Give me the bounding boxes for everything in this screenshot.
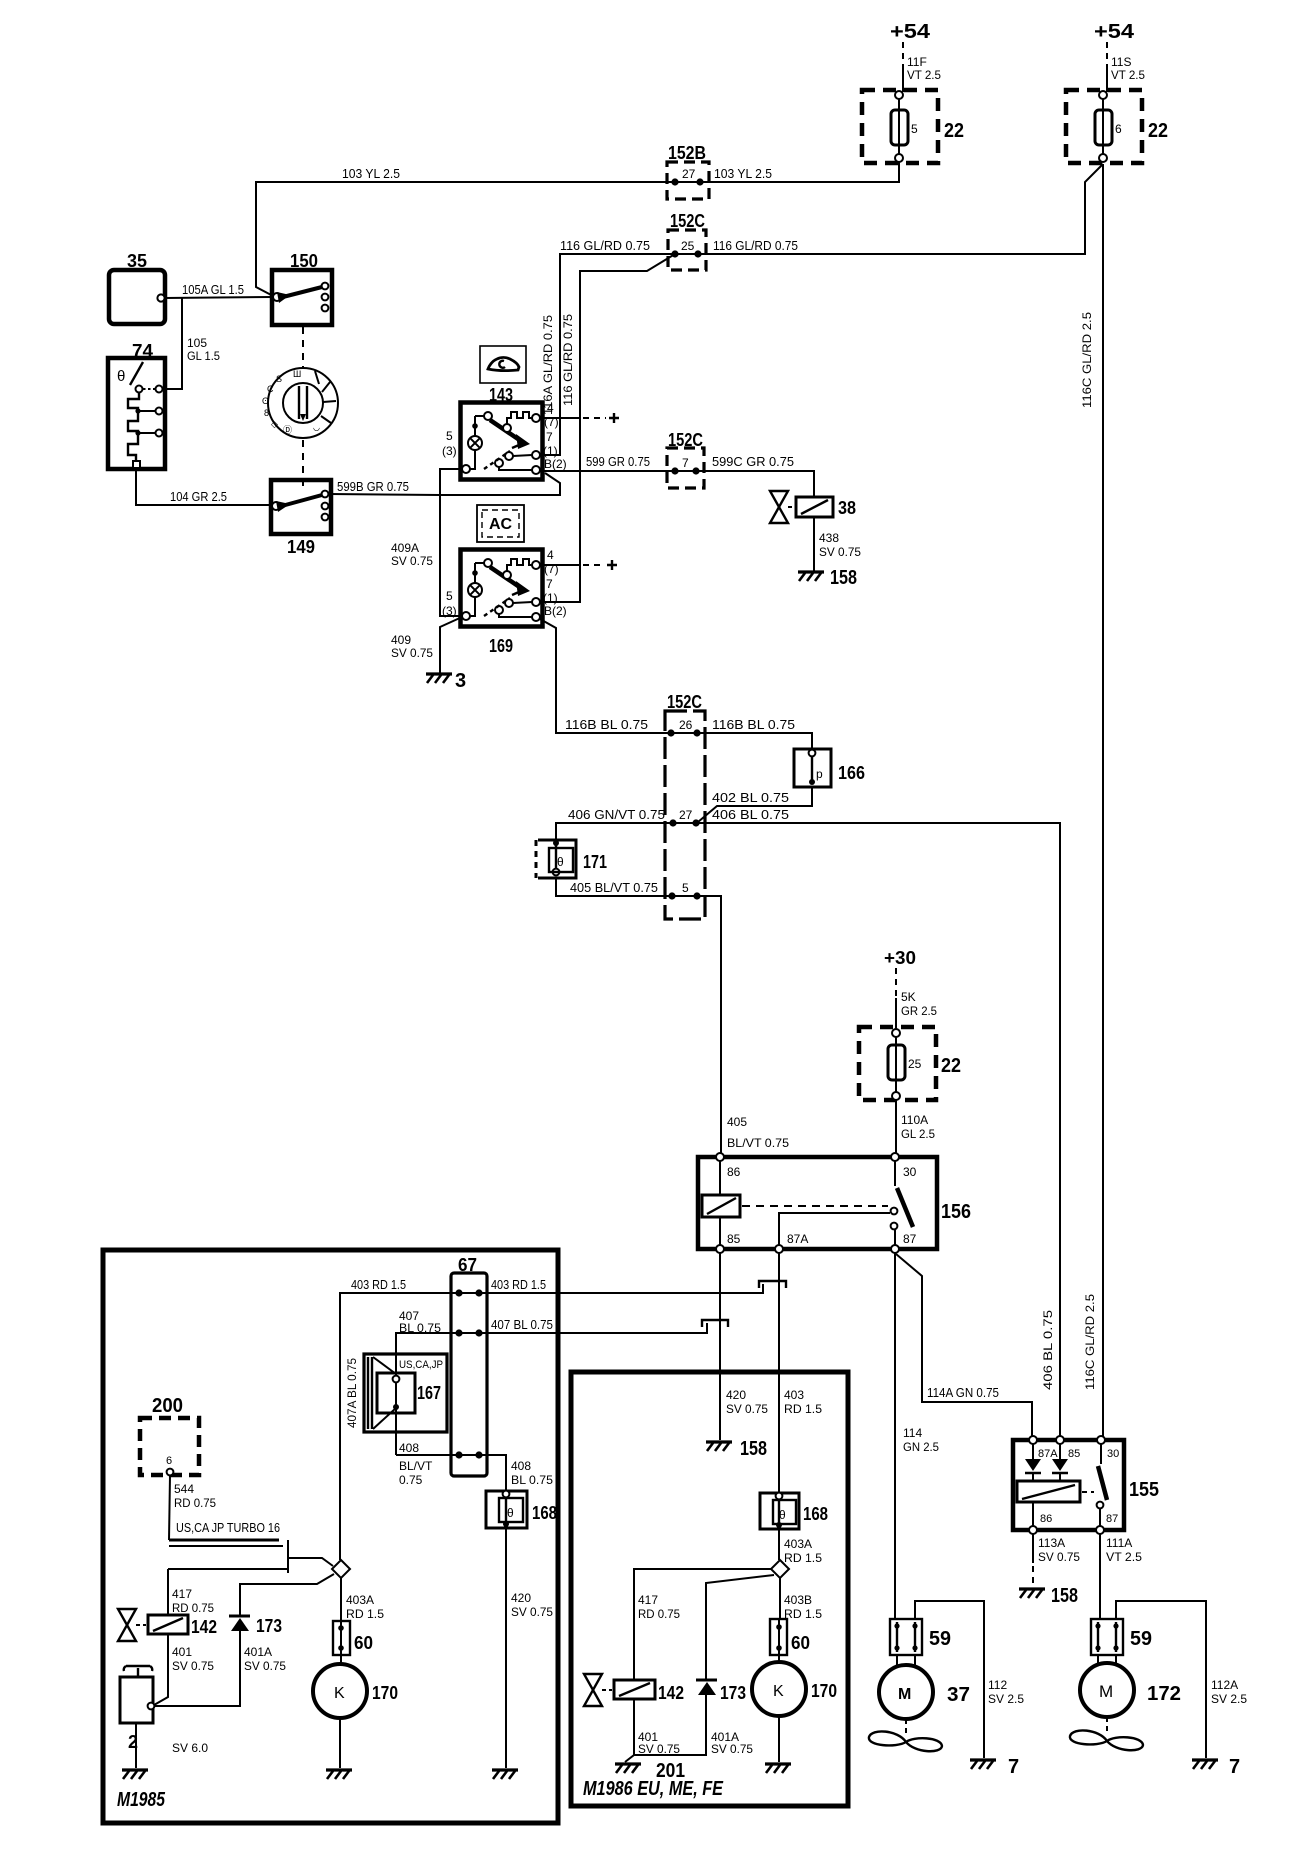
label 420 SV 0.75 [511, 1591, 553, 1619]
receiver unit 2 [120, 1666, 154, 1723]
svg-text:RD 1.5: RD 1.5 [784, 1551, 822, 1565]
wire SV 6.0 from 2 to ground [135, 1723, 137, 1768]
svg-text:27: 27 [679, 808, 693, 822]
svg-text:105: 105 [187, 336, 207, 350]
label 111A VT 2.5 [1106, 1536, 1142, 1564]
thermal switch 168 (M1985) [486, 1491, 527, 1528]
component 35 (switch unit) [109, 270, 165, 324]
svg-text:86: 86 [727, 1165, 741, 1179]
svg-text:406 BL 0.75: 406 BL 0.75 [712, 807, 789, 822]
svg-text:105A GL 1.5: 105A GL 1.5 [182, 282, 244, 297]
svg-text:116 GL/RD 0.75: 116 GL/RD 0.75 [713, 238, 798, 253]
svg-text:BL 0.75: BL 0.75 [511, 1473, 553, 1487]
label 5K GR 2.5 [901, 990, 937, 1018]
svg-text:7: 7 [1229, 1756, 1240, 1778]
svg-text:SV 2.5: SV 2.5 [1211, 1692, 1247, 1706]
svg-text:401A: 401A [244, 1645, 272, 1659]
svg-text:142: 142 [658, 1683, 684, 1703]
svg-text:BL/VT 0.75: BL/VT 0.75 [727, 1136, 789, 1150]
svg-text:(3): (3) [442, 444, 457, 458]
svg-text:114A GN 0.75: 114A GN 0.75 [927, 1385, 999, 1400]
svg-text:5: 5 [446, 589, 453, 603]
svg-text:85: 85 [1068, 1448, 1080, 1460]
M1986 variant box [571, 1372, 848, 1806]
wire 401 SV 0.75 from 142 to ground 201 [625, 1699, 634, 1762]
svg-text:406 GN/VT 0.75: 406 GN/VT 0.75 [568, 807, 665, 822]
wire 599B GR 0.75 from 149 to relay 143 pin B(2) [329, 473, 560, 495]
svg-text:408: 408 [399, 1441, 419, 1455]
svg-text:169: 169 [489, 636, 513, 656]
vacuum unit 167 [364, 1354, 447, 1432]
variant bracket (85 wire) [702, 1320, 728, 1327]
svg-text:(1): (1) [543, 444, 558, 458]
svg-text:SV 0.75: SV 0.75 [172, 1659, 214, 1673]
solenoid relay 142 (M1985, with valve) [118, 1609, 188, 1641]
wire 116C GL/RD 2.5 from right fuse down to relay 155 pin 30 [1102, 164, 1104, 1440]
svg-text:6: 6 [1115, 122, 1122, 136]
svg-text:86: 86 [1040, 1513, 1052, 1525]
svg-text:SV 0.75: SV 0.75 [726, 1402, 768, 1416]
svg-text:167: 167 [417, 1383, 441, 1403]
svg-text:SV 0.75: SV 0.75 [244, 1659, 286, 1673]
wire 599 GR 0.75 from 143 B(2) to 152C pin 7 [540, 470, 675, 472]
diode 173 (M1986) [696, 1680, 717, 1695]
turbo variant bus lines [168, 1540, 333, 1573]
ground 7 (right) [1192, 1756, 1240, 1778]
svg-text:112A: 112A [1211, 1678, 1238, 1692]
svg-text:201: 201 [656, 1760, 685, 1782]
label 417 RD 0.75 [172, 1587, 214, 1615]
wire 5K GR 2.5 (dashed supply drop) [895, 968, 897, 1029]
pin labels relay 143 [442, 401, 567, 471]
svg-text:438: 438 [819, 531, 839, 545]
svg-text:403: 403 [784, 1388, 804, 1402]
wire 408 BL/VT 0.75 from 167 to 67 [396, 1454, 459, 1456]
wire 407 BL 0.75 to vacuum unit 167 [396, 1333, 459, 1455]
svg-text:RD 1.5: RD 1.5 [346, 1607, 384, 1621]
svg-text:(1): (1) [543, 591, 558, 605]
wire 403 RD 1.5: 156 pin 87A down to 168 in M1986 [778, 1253, 780, 1493]
label 438 SV 0.75 [819, 531, 861, 559]
wire 406 GN/VT 0.75 from pin 27 to thermostat 171 [556, 823, 673, 843]
svg-text:166: 166 [838, 763, 865, 783]
wire K to ground (M1986) [778, 1716, 780, 1762]
node + (battery ref, relay 143) [540, 413, 619, 423]
svg-text:C: C [267, 384, 274, 394]
ground 3 [426, 670, 466, 692]
mechanical link dial to 149 (dashed) [302, 440, 304, 492]
svg-text:37: 37 [947, 1684, 970, 1706]
label 113A SV 0.75 [1038, 1536, 1080, 1564]
svg-text:SV 2.5: SV 2.5 [988, 1692, 1024, 1706]
fuse box 22 (fuse 25) [859, 1027, 936, 1100]
svg-text:104 GR 2.5: 104 GR 2.5 [170, 489, 227, 504]
svg-text:GR 2.5: GR 2.5 [901, 1004, 937, 1018]
wire 114A GN 0.75 branch to relay 155 pin 87A [896, 1254, 1032, 1440]
wire 407 BL 0.75 from connector 67 to bracket [479, 1323, 707, 1333]
relay 156 [698, 1153, 937, 1253]
svg-text:θ: θ [779, 1508, 786, 1522]
ignition switch dial [262, 368, 338, 438]
svg-text:158: 158 [740, 1438, 767, 1460]
svg-text:VT 2.5: VT 2.5 [907, 68, 941, 82]
label 420 SV 0.75 (M1986) [726, 1388, 768, 1416]
ground (under 2) [122, 1770, 148, 1779]
ground 7 (left) [970, 1756, 1019, 1778]
svg-text:SV 0.75: SV 0.75 [511, 1605, 553, 1619]
ground 201 [615, 1760, 685, 1782]
connector 152C pin 25 [668, 230, 706, 270]
wire 405 BL/VT 0.75 from pin 5 to relay 156 pin 86 [697, 896, 721, 1157]
svg-text:SV 0.75: SV 0.75 [1038, 1550, 1080, 1564]
wire 116 GL/RD 0.75 from pin 25 to relay 169 pin 7(1) [541, 254, 675, 602]
connector 152B [667, 162, 709, 199]
svg-text:170: 170 [372, 1683, 398, 1703]
diode 173 (M1985) [229, 1616, 250, 1631]
label 110A GL 2.5 [901, 1113, 935, 1141]
svg-text:403 RD 1.5: 403 RD 1.5 [351, 1277, 406, 1292]
svg-text:103 YL 2.5: 103 YL 2.5 [342, 166, 400, 181]
solenoid relay 142 (M1986, with valve) [584, 1674, 655, 1706]
svg-text:405: 405 [727, 1115, 747, 1129]
svg-text:27: 27 [682, 167, 696, 181]
connector 152C pins 26 27 5 [665, 711, 705, 919]
ground 158 (M1986) [706, 1438, 767, 1460]
svg-text:5: 5 [911, 122, 918, 136]
pin labels relay 169 [442, 548, 567, 618]
svg-text:408: 408 [511, 1459, 531, 1473]
svg-text:GL 2.5: GL 2.5 [901, 1127, 935, 1141]
svg-text:406 BL 0.75: 406 BL 0.75 [1041, 1310, 1055, 1390]
svg-text:152C: 152C [670, 211, 705, 231]
svg-text:173: 173 [256, 1616, 282, 1636]
ground 158 (under 155) [1019, 1585, 1078, 1607]
wire 403 RD 1.5 (inside M1985) to diamond junction [340, 1293, 459, 1560]
wire 112 SV 2.5 from 59 to ground 7 [915, 1601, 984, 1758]
svg-text:87: 87 [903, 1232, 917, 1246]
svg-text:407 BL 0.75: 407 BL 0.75 [491, 1317, 553, 1332]
label 114 GN 2.5 [903, 1426, 939, 1454]
svg-text:US,CA,JP: US,CA,JP [399, 1359, 443, 1371]
ground 158 (under 38) [798, 567, 857, 589]
wire 403A RD 1.5 from diamond to 60 [340, 1578, 342, 1621]
svg-text:5: 5 [446, 429, 453, 443]
compressor clutch K 170 (M1986) [752, 1655, 806, 1716]
svg-text:Ш: Ш [293, 369, 301, 379]
fan motor 172 [1080, 1655, 1134, 1717]
svg-text:409: 409 [391, 633, 411, 647]
relay 143 (AC compressor control, lamp + switch) [461, 403, 543, 480]
svg-text:6: 6 [166, 1455, 172, 1467]
svg-text:SV 6.0: SV 6.0 [172, 1741, 208, 1755]
svg-text:111A: 111A [1106, 1536, 1132, 1550]
label 401A SV 0.75 (M1986) [711, 1730, 753, 1756]
svg-text:403A: 403A [346, 1593, 374, 1607]
fan blades (37) [869, 1719, 942, 1751]
svg-text:152C: 152C [667, 692, 702, 712]
svg-text:599 GR 0.75: 599 GR 0.75 [586, 454, 650, 469]
svg-text:60: 60 [791, 1633, 810, 1653]
wire 11F VT 2.5 (dashed supply drop) [902, 42, 904, 92]
label 408 BL 0.75 [511, 1459, 553, 1487]
svg-text:113A: 113A [1038, 1536, 1065, 1550]
svg-text:116 GL/RD 0.75: 116 GL/RD 0.75 [561, 314, 575, 406]
svg-text:K: K [334, 1685, 345, 1702]
icon box (car) above relay 143 [480, 346, 526, 383]
label 409A SV 0.75 [391, 541, 433, 568]
wire 401 SV 0.75 from 142 to compressor unit 2 [154, 1634, 168, 1705]
svg-text:VT 2.5: VT 2.5 [1111, 68, 1145, 82]
svg-text:M: M [898, 1686, 911, 1703]
svg-text:B(2): B(2) [544, 604, 567, 618]
svg-text:38: 38 [838, 498, 856, 518]
svg-text:59: 59 [1130, 1628, 1152, 1650]
variant bracket (87A wire) [759, 1281, 786, 1288]
svg-text:US,CA JP TURBO 16: US,CA JP TURBO 16 [176, 1520, 280, 1535]
wire 405 BL/VT 0.75 from 171 to 152C pin 5 [556, 878, 672, 896]
svg-text:110A: 110A [901, 1113, 928, 1127]
svg-text:544: 544 [174, 1482, 194, 1496]
connector 152C pin 7 [667, 448, 704, 488]
svg-text:+30: +30 [884, 948, 916, 968]
wire 11S VT 2.5 (dashed supply drop) [1106, 42, 1108, 92]
wire 403A RD 1.5 from 168 to diamond [778, 1529, 780, 1560]
svg-text:599B GR 0.75: 599B GR 0.75 [337, 479, 409, 494]
wire 111A VT 2.5 from 155 pin 87 to motor 172 [1099, 1534, 1101, 1619]
label 407 BL 0.75 [399, 1309, 441, 1335]
svg-text:116B BL 0.75: 116B BL 0.75 [565, 717, 648, 732]
svg-text:22: 22 [1148, 120, 1168, 142]
svg-text:RD 1.5: RD 1.5 [784, 1402, 822, 1416]
svg-text:BL/VT: BL/VT [399, 1459, 433, 1473]
solenoid valve 38 (coil + valve) [770, 491, 833, 523]
AC box label above relay 169 [477, 505, 524, 542]
pressure sensor 200 (dashed box) [140, 1418, 199, 1475]
node + (battery ref, relay 169) [540, 560, 617, 570]
svg-text:114: 114 [903, 1426, 922, 1440]
svg-text:30: 30 [903, 1165, 917, 1179]
svg-text:405 BL/VT 0.75: 405 BL/VT 0.75 [570, 880, 658, 895]
wire 401A SV 0.75 from diode to ground 201 [634, 1695, 706, 1755]
wire K to ground (M1985) [339, 1718, 341, 1768]
svg-text:116A GL/RD 0.75: 116A GL/RD 0.75 [541, 315, 555, 415]
svg-text:152B: 152B [668, 143, 706, 163]
svg-text:149: 149 [287, 537, 315, 557]
svg-text:60: 60 [354, 1633, 373, 1653]
wire 409 SV 0.75 to ground 3 [440, 617, 462, 673]
thermostat 171 [536, 840, 576, 878]
wire 112A SV 2.5 from 59 to ground 7 [1116, 1601, 1206, 1758]
label 401 SV 0.75 [172, 1645, 214, 1673]
svg-text:403A: 403A [784, 1537, 812, 1551]
connector 67 [451, 1273, 487, 1476]
junction diamond (M1985) [332, 1560, 350, 1578]
svg-text:4: 4 [547, 548, 554, 562]
wire 417 RD 0.75 from diamond to 142 (M1986) [634, 1569, 771, 1680]
svg-text:59: 59 [929, 1628, 951, 1650]
wire 544 RD 0.75 from 200 [169, 1476, 170, 1540]
svg-text:RD 0.75: RD 0.75 [172, 1601, 214, 1615]
svg-text:25: 25 [681, 239, 695, 253]
svg-text:ʘ: ʘ [262, 396, 269, 406]
relay 169 (AC control, lamp + switch) [461, 550, 543, 627]
svg-text:8: 8 [264, 408, 269, 418]
svg-text:22: 22 [944, 120, 964, 142]
svg-text:θ: θ [557, 855, 564, 869]
svg-text:0.75: 0.75 [399, 1473, 423, 1487]
svg-text:112: 112 [988, 1678, 1007, 1692]
svg-text:11S: 11S [1111, 55, 1131, 69]
svg-text:407A BL 0.75: 407A BL 0.75 [345, 1358, 359, 1428]
wire 406 BL 0.75 from pin 27 to relay 155 pin 85 [696, 823, 1060, 1440]
svg-text:172: 172 [1147, 1683, 1181, 1705]
label 11S VT 2.5 [1111, 55, 1145, 82]
svg-text:87A: 87A [787, 1232, 808, 1246]
svg-text:◡: ◡ [313, 423, 320, 432]
svg-text:25: 25 [908, 1057, 922, 1071]
svg-text:30: 30 [1107, 1448, 1119, 1460]
svg-text:K: K [773, 1683, 784, 1700]
svg-text:7: 7 [682, 456, 689, 470]
wire 114 GN 2.5 from 156 pin 87 to motor 37 [894, 1253, 896, 1619]
svg-text:116B BL 0.75: 116B BL 0.75 [712, 717, 795, 732]
wire 403 RD 1.5 from connector 67 to bracket [479, 1284, 763, 1293]
svg-text:5: 5 [682, 881, 689, 895]
label 401 SV 0.75 (M1986) [638, 1730, 680, 1756]
label 544 RD 0.75 [174, 1482, 216, 1510]
wire 113A SV 0.75 from 155 pin 86 to ground 158 [1032, 1534, 1034, 1587]
svg-text:173: 173 [720, 1683, 746, 1703]
label 403B RD 1.5 [784, 1593, 822, 1621]
component 74 (blower switch with thermal element) [108, 358, 165, 469]
svg-text:+54: +54 [890, 21, 931, 43]
svg-text:168: 168 [532, 1503, 557, 1523]
wire 401A SV 0.75 from diode to unit 2 [153, 1631, 240, 1706]
svg-text:26: 26 [679, 718, 693, 732]
wire to diode 173 (M1986) [706, 1575, 774, 1680]
label 11F VT 2.5 [907, 55, 941, 82]
wire to diode 173 (M1985) [240, 1574, 334, 1616]
wire 403B RD 1.5 from diamond to 60 [779, 1578, 781, 1619]
label 417 RD 0.75 (M1986) [638, 1593, 680, 1621]
svg-text:p: p [816, 767, 823, 781]
svg-text:103 YL 2.5: 103 YL 2.5 [714, 166, 772, 181]
svg-text:BL 0.75: BL 0.75 [399, 1321, 441, 1335]
svg-text:116 GL/RD 0.75: 116 GL/RD 0.75 [560, 238, 650, 253]
label 409 SV 0.75 [391, 633, 433, 660]
svg-text:417: 417 [638, 1593, 658, 1607]
connector 59 (motor 172) [1091, 1619, 1123, 1655]
wire 103 YL 2.5 from left fuse to 152B [700, 162, 899, 182]
svg-text:Ⓓ: Ⓓ [283, 425, 292, 435]
svg-text:409A: 409A [391, 541, 419, 555]
svg-text:AC: AC [489, 516, 513, 533]
fan motor 37 [879, 1655, 933, 1719]
svg-text:22: 22 [941, 1055, 961, 1077]
svg-text:171: 171 [583, 852, 607, 872]
svg-text:M1986 EU, ME, FE: M1986 EU, ME, FE [583, 1778, 724, 1800]
wire 402 BL 0.75 from 166 to 152C pin 27 [698, 787, 812, 822]
switch 149 [271, 480, 331, 534]
label 112A SV 2.5 [1211, 1678, 1247, 1706]
fuse box 22 (left) [862, 90, 938, 163]
svg-text:168: 168 [803, 1504, 828, 1524]
label 405 BL/VT 0.75 (at 156) [727, 1115, 789, 1150]
svg-text:116C GL/RD 2.5: 116C GL/RD 2.5 [1083, 1294, 1097, 1390]
svg-text:SV 0.75: SV 0.75 [391, 554, 433, 568]
svg-text:SV 0.75: SV 0.75 [391, 646, 433, 660]
svg-text:θ: θ [507, 1506, 514, 1520]
mechanical link 150 to ignition dial (dashed) [302, 327, 304, 367]
svg-text:5K: 5K [901, 990, 916, 1004]
svg-text:156: 156 [941, 1201, 971, 1223]
svg-text:87: 87 [1106, 1513, 1118, 1525]
wire 105 GL 1.5 branch down to 74 [163, 298, 182, 389]
svg-text:SV 0.75: SV 0.75 [711, 1742, 753, 1756]
wire 599C GR 0.75 from 152C to solenoid 38 [696, 471, 814, 497]
svg-text:RD 0.75: RD 0.75 [638, 1607, 680, 1621]
inline connector 60 (M1985) [333, 1621, 350, 1655]
svg-text:170: 170 [811, 1681, 837, 1701]
svg-text:417: 417 [172, 1587, 192, 1601]
label 403 RD 1.5 (M1986) [784, 1388, 822, 1416]
svg-text:420: 420 [511, 1591, 531, 1605]
svg-text:420: 420 [726, 1388, 746, 1402]
wire 417 RD 0.75 to relay 142 [167, 1569, 169, 1615]
ground (under K, M1985) [326, 1770, 352, 1779]
wire 420 SV 0.75 from 168 to ground [505, 1528, 507, 1768]
svg-text:B(2): B(2) [544, 457, 567, 471]
switch 150 [272, 270, 332, 325]
svg-text:11F: 11F [907, 55, 927, 69]
svg-text:158: 158 [1051, 1585, 1078, 1607]
wire 116B BL 0.75 from 169 B(2) to 152C pin 26 [540, 619, 671, 733]
svg-text:402 BL 0.75: 402 BL 0.75 [712, 790, 789, 805]
label 112 SV 2.5 [988, 1678, 1024, 1706]
connector 59 (motor 37) [890, 1619, 922, 1655]
svg-text:RD 1.5: RD 1.5 [784, 1607, 822, 1621]
compressor clutch K 170 (M1985) [313, 1655, 367, 1718]
svg-text:RD 0.75: RD 0.75 [174, 1496, 216, 1510]
svg-text:87A: 87A [1038, 1448, 1058, 1460]
svg-text:401: 401 [172, 1645, 192, 1659]
svg-text:θ: θ [117, 368, 125, 385]
wire 438 SV 0.75 to ground 158 [813, 517, 815, 571]
wire 116B BL 0.75 from pin 26 to pressure switch 166 [697, 733, 812, 750]
svg-text:◇: ◇ [271, 419, 278, 429]
svg-text:SV 0.75: SV 0.75 [819, 545, 861, 559]
label 403A RD 1.5 [346, 1593, 384, 1621]
wire 420 SV 0.75: 156 pin 85 down to ground 158 in M1986 [719, 1253, 721, 1440]
svg-text:7: 7 [546, 577, 553, 591]
wire 104 GR 2.5 from 74 to 149 [136, 468, 271, 505]
wire 409A SV 0.75 between relay pins 5(3) [440, 469, 462, 616]
ground (M1985 right) [492, 1770, 518, 1779]
label 105 GL 1.5 [187, 336, 220, 363]
fan blades (172) [1070, 1717, 1143, 1750]
relay 155 (with suppression diodes) [1013, 1436, 1124, 1534]
fuse box 22 (right) [1066, 90, 1142, 163]
svg-text:7: 7 [1008, 1756, 1019, 1778]
svg-text:599C GR 0.75: 599C GR 0.75 [712, 454, 794, 469]
wire 105A GL 1.5 from 35 to 150 [165, 297, 274, 298]
svg-text:M: M [1099, 1682, 1113, 1701]
svg-text:+54: +54 [1094, 21, 1135, 43]
svg-text:85: 85 [727, 1232, 741, 1246]
svg-text:S: S [276, 374, 282, 384]
svg-text:GL 1.5: GL 1.5 [187, 349, 220, 363]
svg-text:4: 4 [547, 401, 554, 415]
